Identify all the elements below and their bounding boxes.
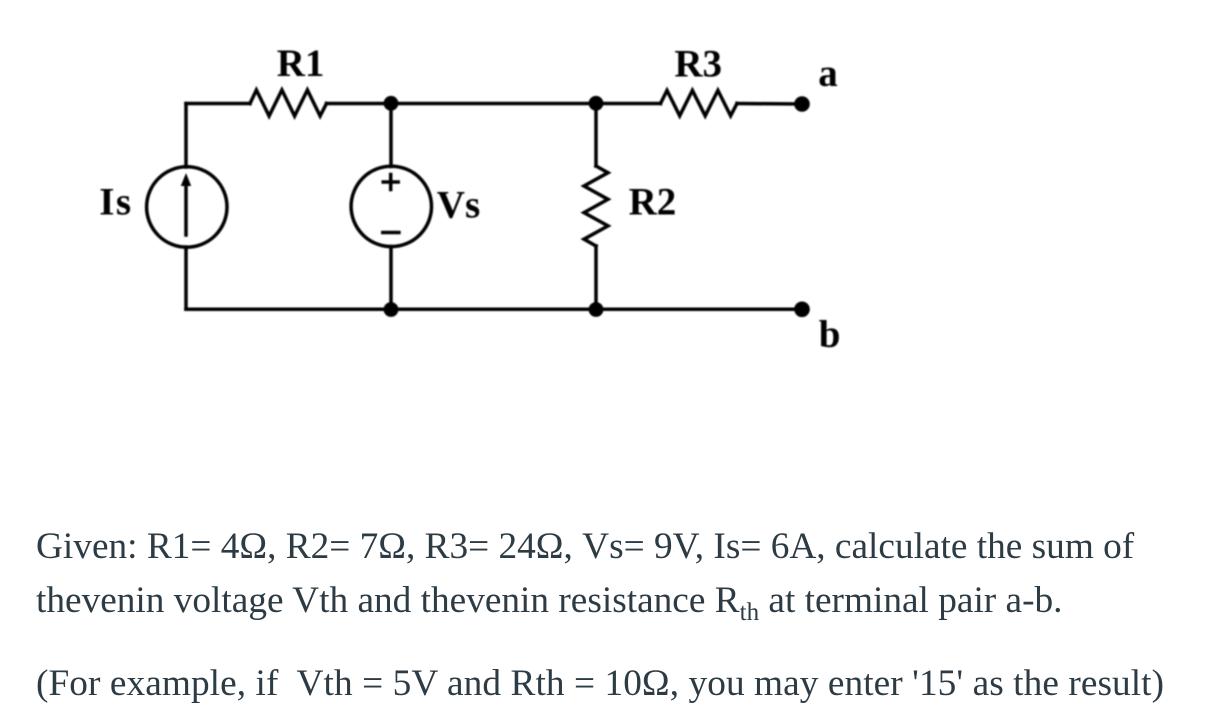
- svg-text:R3: R3: [674, 42, 722, 85]
- wire top right to terminal a: [737, 102, 802, 106]
- question text line 2: [36, 582, 1063, 619]
- voltage source Vs circle: [351, 166, 431, 246]
- Is arrow shaft: [184, 184, 188, 235]
- wire Vs branch lower: [389, 247, 393, 310]
- node dot bottom R2: [589, 302, 604, 317]
- svg-text:a: a: [818, 52, 838, 95]
- current source Is circle: [147, 167, 227, 247]
- node dot bottom Vs: [384, 302, 399, 317]
- svg-text:b: b: [819, 313, 841, 356]
- wire left vertical upper: [184, 104, 188, 168]
- wire bottom: [186, 307, 802, 311]
- question text line 3: [36, 665, 1164, 702]
- node dot top R2: [589, 96, 604, 111]
- terminal b dot: [794, 302, 810, 318]
- resistor R2: [584, 166, 608, 246]
- svg-text:Vs: Vs: [437, 184, 480, 227]
- wire R2 branch upper: [594, 104, 598, 167]
- minus sign of Vs: [383, 231, 399, 235]
- resistor R3: [661, 90, 738, 115]
- terminal a dot: [794, 96, 810, 112]
- svg-text:Is: Is: [99, 181, 132, 224]
- question text line 1: [36, 528, 1134, 565]
- wire top middle: [327, 102, 661, 106]
- node dot top Vs: [384, 96, 399, 111]
- svg-text:R2: R2: [629, 181, 677, 224]
- svg-text:R1: R1: [277, 42, 325, 85]
- plus sign of Vs: [383, 175, 398, 190]
- resistor R1: [250, 90, 327, 116]
- wire left vertical lower: [184, 247, 188, 309]
- wire R2 branch lower: [594, 246, 598, 309]
- circuit schematic drawing: [0, 0, 900, 400]
- Is arrow head: [181, 173, 191, 186]
- wire Vs branch upper: [389, 104, 393, 167]
- wire top-left segment: [186, 102, 250, 106]
